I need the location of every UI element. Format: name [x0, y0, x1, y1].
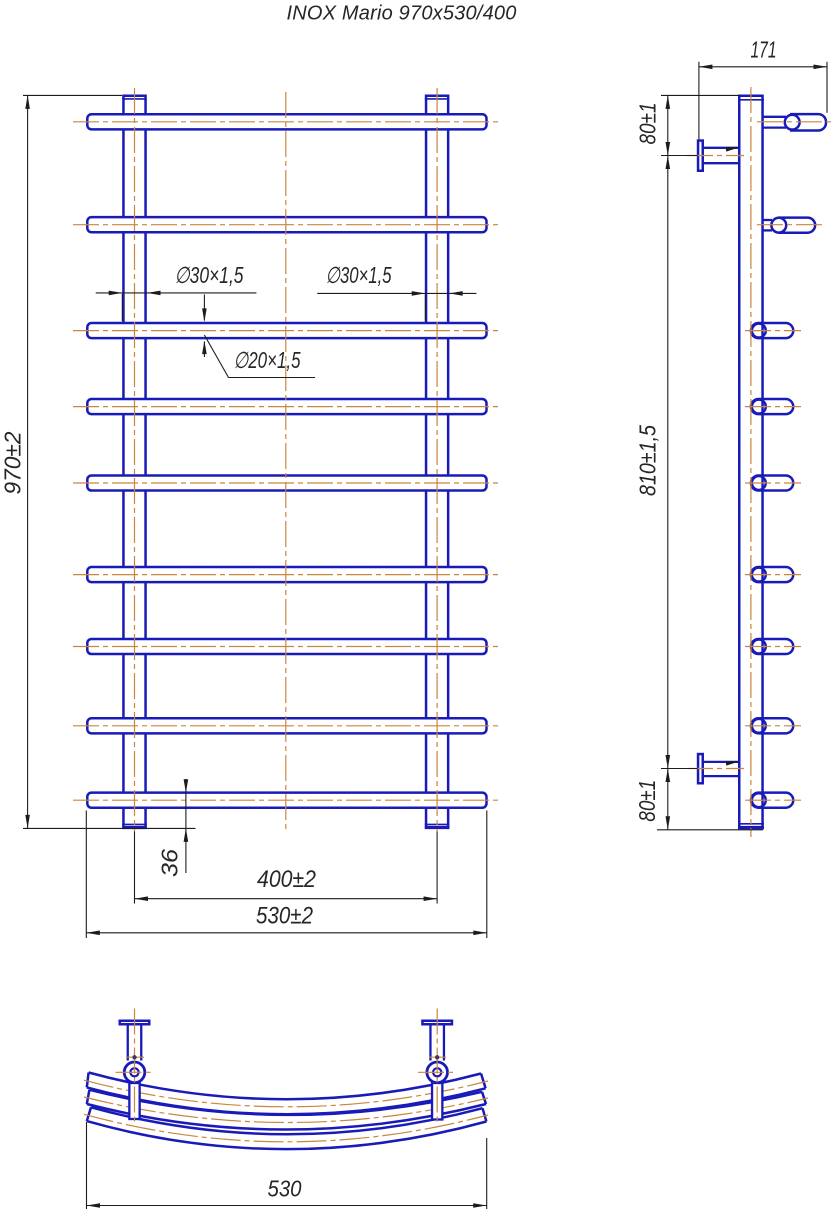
- rail stub 4: [751, 399, 793, 414]
- centerline stub7: [745, 646, 801, 648]
- centerline plan post left horizontal: [116, 1071, 155, 1073]
- svg-text:INOX Mario 970x530/400: INOX Mario 970x530/400: [286, 3, 516, 25]
- centerline upper bracket stem: [687, 155, 744, 157]
- bar 5: [87, 475, 486, 490]
- svg-text:80±1: 80±1: [635, 103, 661, 145]
- curved rail band B bottom edge: [87, 1104, 486, 1130]
- rail stub 1 bend circle: [785, 115, 800, 130]
- centerline stub3: [745, 330, 801, 332]
- centerline side tube axis: [750, 87, 752, 837]
- centerline plan post right horizontal: [418, 1071, 457, 1073]
- centerline bar9: [73, 799, 499, 801]
- rail stub 9 bend circle: [752, 793, 766, 807]
- dimension 530±2: [86, 811, 487, 939]
- post circle right outer: [427, 1062, 448, 1083]
- post P2 right vertical tube: [425, 96, 450, 828]
- band B centerline arc: [84, 1097, 488, 1123]
- curved rail band C bottom edge: [87, 1121, 487, 1149]
- dimension 970±2: [23, 95, 196, 828]
- weld leader arrow upper bracket: [726, 145, 740, 151]
- band A centerline arc: [84, 1080, 488, 1107]
- bar 7: [87, 639, 486, 654]
- dimension 810±1,5 arrows: [666, 156, 671, 170]
- band C centerline arc: [84, 1114, 488, 1142]
- bar 4: [87, 399, 486, 414]
- curved rail band A bottom edge: [87, 1087, 486, 1114]
- wall bracket upper: flange: [698, 141, 703, 171]
- rail stub 7 bend circle: [752, 640, 766, 654]
- centerline lower bracket stem: [687, 768, 744, 770]
- band B left end cap: [87, 1090, 90, 1104]
- bar 6: [87, 567, 486, 582]
- bracket stem plan right: [430, 1025, 444, 1061]
- rail stub 1 neck: [763, 117, 787, 128]
- centerline post P2: [436, 88, 438, 832]
- bar 3: [87, 323, 486, 338]
- svg-text:970±2: 970±2: [0, 431, 26, 494]
- centerline stub8: [745, 725, 801, 727]
- rail stub 2 neck: [763, 220, 773, 230]
- curved rail band B top edge: [89, 1090, 482, 1115]
- band A right end cap: [481, 1074, 486, 1089]
- centerline stub5: [745, 482, 801, 484]
- bar 1: [87, 114, 486, 129]
- band B right end cap: [482, 1092, 486, 1104]
- rail stub 3 bend circle: [752, 324, 766, 338]
- curved rail band A top edge: [89, 1073, 481, 1100]
- weld leader arrow lower bracket: [726, 759, 740, 765]
- bar 9: [87, 793, 486, 808]
- post circle left inner: [130, 1068, 138, 1076]
- bracket flange plan right: [422, 1021, 452, 1025]
- seam tick left: [126, 1056, 144, 1058]
- wall bracket lower: flange: [698, 754, 703, 783]
- rail stub 2 outer capsule: [778, 218, 815, 233]
- svg-text:530±2: 530±2: [256, 903, 313, 930]
- curved rail band C top edge: [91, 1107, 483, 1134]
- centerline bar5: [73, 482, 499, 484]
- dimension 80±1 top arrows: [666, 95, 671, 109]
- centerline plan post left vertical: [134, 1009, 136, 1126]
- post P1 left vertical tube: [122, 96, 147, 828]
- centerline bar3: [73, 330, 499, 332]
- dimension 80±1 bottom arrows: [666, 769, 671, 783]
- weld dot right: [435, 1055, 439, 1059]
- centerline plan post right vertical: [436, 1009, 438, 1126]
- dimension 171: [699, 62, 827, 140]
- rail stub 6 bend circle: [752, 568, 766, 582]
- svg-text:80±1: 80±1: [634, 780, 660, 822]
- band A left end cap: [87, 1073, 89, 1088]
- wall bracket lower: stem: [702, 762, 740, 776]
- centerline bar4: [73, 406, 499, 408]
- post circle right inner: [433, 1068, 441, 1076]
- centerlines front view: [73, 88, 499, 832]
- post stem below circle left: [129, 1083, 139, 1119]
- svg-text:810±1,5: 810±1,5: [635, 425, 661, 496]
- centerline bar6: [73, 574, 499, 576]
- rail stub 8: [751, 718, 793, 733]
- centerline bar8: [73, 725, 499, 727]
- centerline middle axis: [285, 92, 287, 832]
- svg-text:∅30×1,5: ∅30×1,5: [175, 262, 244, 288]
- dimension 36: [185, 779, 187, 873]
- rail stub 5: [751, 475, 793, 490]
- centerline post P1: [134, 88, 136, 832]
- centerline stub6: [745, 574, 801, 576]
- centerline bar2: [73, 224, 499, 226]
- dimension 530 plan: [87, 1122, 487, 1209]
- bracket flange plan left: [120, 1021, 150, 1025]
- centerline stub4: [745, 406, 801, 408]
- post circle left outer: [124, 1062, 145, 1083]
- band C left end cap: [87, 1107, 91, 1121]
- svg-text:∅20×1,5: ∅20×1,5: [234, 347, 301, 373]
- centerline bar1: [73, 121, 499, 123]
- centerline stub9: [745, 799, 801, 801]
- bar 2: [87, 217, 486, 232]
- rail stub 2 bend circle: [771, 218, 786, 233]
- side tube (post in side view): [738, 96, 764, 828]
- svg-text:530: 530: [268, 1176, 302, 1202]
- bar 8: [87, 718, 486, 733]
- plan centerlines: [116, 1009, 458, 1126]
- wall bracket upper: stem: [702, 148, 740, 163]
- post stem below circle right: [432, 1083, 442, 1120]
- rail stub 7: [751, 639, 793, 654]
- dimension ø30x1,5 right: [317, 293, 476, 320]
- seam tick right: [429, 1056, 446, 1058]
- rail stub 6: [751, 567, 793, 582]
- centerline stub1: [757, 121, 832, 123]
- rail stub 3: [751, 323, 793, 338]
- weld dot left: [132, 1055, 136, 1059]
- rail stub 9: [751, 793, 793, 808]
- rail stub 8 bend circle: [752, 719, 766, 733]
- svg-text:∅30×1,5: ∅30×1,5: [326, 262, 392, 288]
- dimension 400±2: [135, 832, 438, 904]
- svg-text:36: 36: [157, 849, 183, 877]
- svg-text:400±2: 400±2: [257, 866, 316, 893]
- extension lines side dims: [657, 95, 763, 829]
- svg-text:171: 171: [751, 37, 777, 63]
- centerline stub2: [757, 224, 823, 226]
- rail stub 5 bend circle: [752, 476, 766, 490]
- dimension ø30x1,5 left: [96, 293, 257, 321]
- dimension ø20x1,5 with leader: [204, 295, 315, 378]
- band C right end cap: [483, 1108, 487, 1121]
- centerline bar7: [73, 646, 499, 648]
- rail stub 1 outer capsule: [790, 114, 826, 130]
- bracket stem plan left: [128, 1025, 142, 1061]
- rail stub 4 bend circle: [752, 400, 766, 414]
- centerlines side view: [687, 87, 832, 837]
